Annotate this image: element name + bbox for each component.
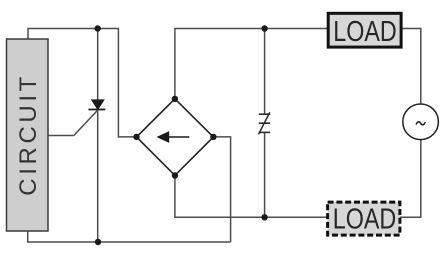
wire: circuit top lead to top-left rail bbox=[28, 29, 98, 41]
svg-text:LOAD: LOAD bbox=[333, 203, 397, 235]
wire: top LOAD to AC source bbox=[401, 29, 421, 105]
wire: bottom LOAD to mid-bottom rail bbox=[265, 216, 328, 218]
junction dot: top-left rail bbox=[95, 25, 101, 31]
wire: gate lead from CIRCUIT box bbox=[47, 135, 74, 137]
wire: top-left rail to bridge left vertex bbox=[98, 29, 137, 137]
junction dot: bridge left vertex bbox=[133, 134, 139, 140]
junction dot: bridge right vertex bbox=[210, 134, 216, 140]
wire: suppressor top branch bbox=[264, 29, 266, 115]
wire: SCR anode branch bbox=[97, 29, 99, 101]
wire: suppressor bottom branch bbox=[264, 133, 266, 218]
surge suppressor Z1 bbox=[259, 112, 271, 134]
wire: SCR cathode down to bottom rail bbox=[97, 110, 99, 242]
load box L1 (top) bbox=[328, 13, 401, 48]
junction dot: bottom rail at SCR cathode bbox=[95, 239, 101, 245]
wire: bottom rail to CIRCUIT bottom lead bbox=[28, 230, 231, 242]
junction dot: bridge bottom vertex bbox=[172, 172, 178, 178]
thyristor Q1 bbox=[74, 100, 106, 136]
control circuit block bbox=[7, 39, 49, 231]
junction dot: mid-bottom rail at suppressor bbox=[261, 214, 267, 220]
load box L2 (bottom, alternate, dashed) bbox=[328, 202, 400, 235]
junction dot: top rail at suppressor bbox=[261, 25, 267, 31]
svg-text:LOAD: LOAD bbox=[333, 16, 397, 48]
wire: bridge top vertex up and right to top LOAD bbox=[175, 29, 328, 99]
bridge / bidirectional current element B1 bbox=[137, 99, 214, 176]
junction dot: bridge top vertex bbox=[172, 96, 178, 102]
AC source G1 bbox=[403, 104, 439, 140]
wire: mid-bottom rail to bridge bottom vertex bbox=[175, 176, 265, 218]
wire: AC source to bottom LOAD bbox=[400, 140, 421, 218]
wire: bridge right vertex down to bottom rail bbox=[213, 137, 230, 242]
